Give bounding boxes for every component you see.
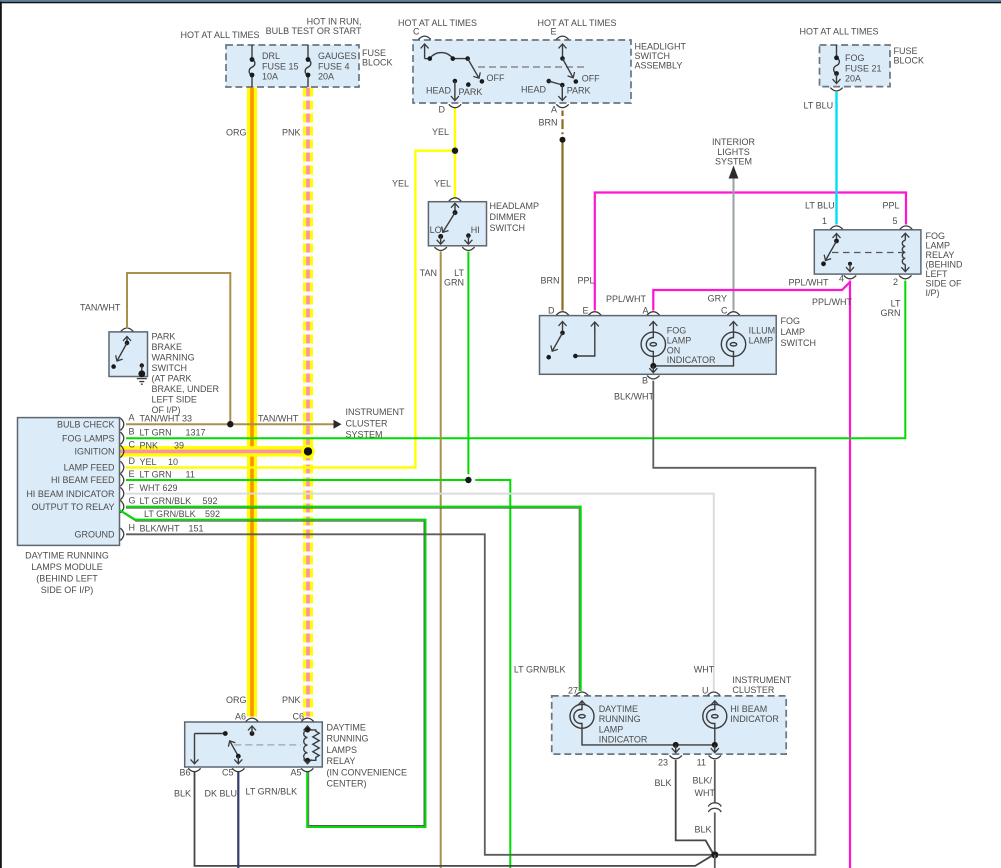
svg-text:LT GRN/BLK: LT GRN/BLK xyxy=(246,787,298,797)
svg-text:FUSE: FUSE xyxy=(362,48,386,58)
svg-text:PPL/WHT: PPL/WHT xyxy=(606,294,647,304)
svg-text:ON: ON xyxy=(667,345,681,355)
svg-text:E: E xyxy=(582,306,588,316)
wire BLK (relay B6 to ground junction along page bottom) xyxy=(195,772,712,866)
wire PPL/WHT (relay pin 4 down + branch to fog switch A) xyxy=(849,281,851,868)
park brake warning switch box xyxy=(109,332,148,377)
wire BRN (headlight switch A to fog switch D) xyxy=(561,111,563,311)
svg-text:LIGHTS: LIGHTS xyxy=(717,147,750,157)
svg-text:ORG: ORG xyxy=(226,695,247,705)
svg-text:2: 2 xyxy=(893,277,898,287)
illum lamp bulb xyxy=(721,322,775,357)
pin 23 xyxy=(670,755,682,758)
svg-text:I/P): I/P) xyxy=(926,288,940,298)
svg-text:H: H xyxy=(129,523,136,533)
svg-text:LEFT SIDE: LEFT SIDE xyxy=(152,395,197,405)
svg-text:SWITCH: SWITCH xyxy=(635,51,671,61)
svg-text:GRY: GRY xyxy=(708,294,727,304)
svg-text:HI BEAM INDICATOR: HI BEAM INDICATOR xyxy=(26,489,115,499)
svg-text:HOT AT ALL TIMES: HOT AT ALL TIMES xyxy=(180,30,259,40)
svg-text:BRN: BRN xyxy=(538,118,557,128)
svg-text:LAMP: LAMP xyxy=(667,335,692,345)
svg-text:LT GRN/BLK: LT GRN/BLK xyxy=(514,665,566,675)
svg-text:10A: 10A xyxy=(262,72,278,82)
svg-text:OUTPUT TO RELAY: OUTPUT TO RELAY xyxy=(32,502,115,512)
inline connector on BLK/WHT xyxy=(708,803,721,812)
svg-text:DRL: DRL xyxy=(262,51,280,61)
svg-text:SWITCH: SWITCH xyxy=(490,223,526,233)
svg-text:1: 1 xyxy=(822,216,827,226)
dashed link inside DRL relay xyxy=(234,744,301,746)
wire DK BLU (relay C5 to page bottom) xyxy=(237,772,239,868)
svg-text:TAN/WHT: TAN/WHT xyxy=(80,303,121,313)
node PNK junction xyxy=(301,445,315,459)
hi beam indicator bulb xyxy=(703,701,780,729)
node YEL junction xyxy=(452,148,458,154)
svg-text:ORG: ORG xyxy=(226,128,247,138)
svg-text:39: 39 xyxy=(174,441,184,451)
svg-text:INSTRUMENT: INSTRUMENT xyxy=(732,675,791,685)
wire LT GRN (module E HI BEAM FEED to page bottom) xyxy=(126,480,510,868)
svg-text:BLK: BLK xyxy=(654,778,671,788)
svg-text:HI: HI xyxy=(471,225,480,235)
svg-text:C: C xyxy=(721,306,728,316)
park brake switch ground contact xyxy=(140,363,144,371)
module pin B xyxy=(120,432,123,444)
pin B6 xyxy=(188,768,200,771)
daytime running lamp indicator bulb xyxy=(570,701,648,745)
module pin A xyxy=(120,418,123,430)
svg-text:BRAKE: BRAKE xyxy=(152,342,183,352)
relay switch xyxy=(821,234,839,267)
svg-text:BLOCK: BLOCK xyxy=(362,58,393,68)
switch C (headlight) xyxy=(425,44,505,101)
svg-text:LAMPS MODULE: LAMPS MODULE xyxy=(31,562,103,572)
pin B xyxy=(647,376,659,379)
svg-text:CENTER): CENTER) xyxy=(327,779,367,789)
svg-text:E: E xyxy=(550,27,556,37)
svg-text:HI BEAM: HI BEAM xyxy=(730,704,767,714)
wire LT BLU (fog fuse to relay pin 1) xyxy=(835,92,837,225)
svg-text:(IN CONVENIENCE: (IN CONVENIENCE xyxy=(327,767,408,777)
wire BLK (cluster 23 to ground junction) xyxy=(676,760,713,853)
svg-text:SIDE OF: SIDE OF xyxy=(926,278,963,288)
svg-text:FUSE 15: FUSE 15 xyxy=(262,62,299,72)
relay A6 contact xyxy=(250,726,255,736)
wire below junction to page bottom xyxy=(714,855,716,868)
svg-text:LAMP: LAMP xyxy=(749,335,774,345)
svg-text:B: B xyxy=(642,376,648,386)
svg-text:RUNNING: RUNNING xyxy=(599,714,641,724)
svg-text:D: D xyxy=(548,306,555,316)
svg-text:YEL: YEL xyxy=(432,127,449,137)
svg-text:LT: LT xyxy=(891,299,901,309)
fog switch contact E xyxy=(573,322,595,358)
svg-text:A5: A5 xyxy=(290,768,301,778)
svg-text:4: 4 xyxy=(839,274,844,284)
svg-text:151: 151 xyxy=(189,524,204,534)
svg-text:LAMP: LAMP xyxy=(781,327,806,337)
wire WHT (module F HI BEAM INDICATOR to cluster pin U) xyxy=(126,494,714,691)
pin 4 contact xyxy=(848,262,852,272)
svg-text:DAYTIME: DAYTIME xyxy=(327,723,366,733)
svg-text:INSTRUMENT: INSTRUMENT xyxy=(346,407,405,417)
svg-text:HEADLAMP: HEADLAMP xyxy=(490,201,540,211)
svg-text:PPL/WHT: PPL/WHT xyxy=(812,297,853,307)
svg-text:SYSTEM: SYSTEM xyxy=(346,429,383,439)
svg-text:LAMP: LAMP xyxy=(926,240,951,250)
svg-text:23: 23 xyxy=(658,758,668,768)
svg-text:TAN/WHT: TAN/WHT xyxy=(258,414,299,424)
svg-text:629: 629 xyxy=(163,483,178,493)
module pin G xyxy=(120,500,123,512)
svg-text:TAN/WHT: TAN/WHT xyxy=(140,414,181,424)
svg-text:U: U xyxy=(702,686,709,696)
pin C5 xyxy=(232,768,244,771)
fog switch blade D xyxy=(546,322,564,360)
svg-text:B6: B6 xyxy=(179,768,190,778)
svg-text:D: D xyxy=(129,456,136,466)
svg-text:C: C xyxy=(129,440,136,450)
svg-text:GROUND: GROUND xyxy=(75,530,115,540)
wire PNK thick highlighted horizontal (module pin C IGNITION to PNK vertical) xyxy=(120,446,313,457)
svg-text:DAYTIME RUNNING: DAYTIME RUNNING xyxy=(25,551,109,561)
svg-text:LAMP: LAMP xyxy=(599,725,624,735)
svg-text:ASSEMBLY: ASSEMBLY xyxy=(635,61,683,71)
fog switch internal wires to pin B xyxy=(650,357,733,373)
instrument cluster box xyxy=(552,696,787,754)
wire PNK thick highlighted dashed vertical (fuse GAUGES to relay C6) xyxy=(303,88,313,717)
daytime running lamps module box xyxy=(18,418,120,546)
svg-text:LT GRN: LT GRN xyxy=(140,428,172,438)
svg-text:FOG: FOG xyxy=(845,53,865,63)
fog lamp on indicator bulb xyxy=(641,322,716,366)
left black frame line xyxy=(0,2,2,868)
svg-text:D: D xyxy=(439,105,446,115)
svg-text:LT BLU: LT BLU xyxy=(804,101,834,111)
wire LT GRN (relay pin 2 to module FOG LAMPS pin B) xyxy=(126,281,905,439)
svg-text:INDICATOR: INDICATOR xyxy=(730,714,779,724)
svg-text:SWITCH: SWITCH xyxy=(781,338,817,348)
fuse FOG FUSE 21 20A xyxy=(834,45,882,84)
svg-text:SIDE OF I/P): SIDE OF I/P) xyxy=(41,585,94,595)
svg-text:BULB CHECK: BULB CHECK xyxy=(57,419,115,429)
svg-text:CLUSTER: CLUSTER xyxy=(732,685,775,695)
svg-text:592: 592 xyxy=(205,509,220,519)
svg-text:BLK: BLK xyxy=(174,789,191,799)
svg-text:C5: C5 xyxy=(222,768,234,778)
svg-text:OFF: OFF xyxy=(582,74,600,84)
svg-text:11: 11 xyxy=(186,469,195,479)
svg-text:GAUGES: GAUGES xyxy=(318,51,357,61)
svg-text:DIMMER: DIMMER xyxy=(490,212,527,222)
svg-text:B: B xyxy=(129,426,135,436)
svg-text:LEFT: LEFT xyxy=(926,269,949,279)
svg-text:PARK: PARK xyxy=(152,332,176,342)
park brake switch blade xyxy=(111,337,129,369)
wire GRY (fog switch C to interior lights system) xyxy=(733,179,735,311)
svg-text:RELAY: RELAY xyxy=(926,250,955,260)
svg-text:HEAD: HEAD xyxy=(426,86,452,96)
svg-text:FOG: FOG xyxy=(667,326,687,336)
svg-text:IGNITION: IGNITION xyxy=(75,447,115,457)
svg-text:A: A xyxy=(129,413,135,423)
fog lamp switch box xyxy=(540,316,777,375)
svg-text:G: G xyxy=(129,496,136,506)
wire LT GRN/BLK (module G to cluster pin 27) xyxy=(126,508,579,691)
module pin E xyxy=(120,474,123,486)
pin A5 xyxy=(301,768,313,771)
relay coil xyxy=(902,233,905,271)
svg-text:33: 33 xyxy=(182,414,192,424)
svg-text:OFF: OFF xyxy=(487,73,505,83)
svg-text:C: C xyxy=(413,27,420,37)
svg-text:BLK/WHT: BLK/WHT xyxy=(140,524,181,534)
svg-text:BLK/: BLK/ xyxy=(693,776,713,786)
relay switch xyxy=(195,731,241,764)
svg-text:(BEHIND: (BEHIND xyxy=(926,259,964,269)
svg-text:ILLUM: ILLUM xyxy=(749,326,776,336)
svg-text:LT GRN/BLK: LT GRN/BLK xyxy=(144,509,196,519)
svg-text:WARNING: WARNING xyxy=(152,353,195,363)
svg-text:RELAY: RELAY xyxy=(327,756,356,766)
svg-text:LT GRN: LT GRN xyxy=(140,469,172,479)
svg-text:HEADLIGHT: HEADLIGHT xyxy=(635,42,687,52)
wire TAN/WHT (park brake switch to module pin A) xyxy=(127,273,230,424)
svg-text:WHT: WHT xyxy=(695,788,716,798)
svg-text:HOT AT ALL TIMES: HOT AT ALL TIMES xyxy=(537,18,616,28)
svg-text:LT GRN/BLK: LT GRN/BLK xyxy=(140,496,192,506)
wire BLK/WHT (cluster 11 to ground junction) xyxy=(714,760,716,851)
svg-text:INTERIOR: INTERIOR xyxy=(712,137,756,147)
svg-text:PPL: PPL xyxy=(578,276,595,286)
svg-text:BLK/WHT: BLK/WHT xyxy=(614,392,655,402)
svg-text:HOT AT ALL TIMES: HOT AT ALL TIMES xyxy=(799,27,878,37)
module pin H xyxy=(120,528,123,540)
svg-text:LT BLU: LT BLU xyxy=(805,201,835,211)
wire BLK/WHT (fog switch B to ground junction) xyxy=(653,381,815,855)
svg-text:PPL/WHT: PPL/WHT xyxy=(788,278,829,288)
svg-text:FUSE: FUSE xyxy=(894,46,918,56)
svg-text:HOT IN RUN,: HOT IN RUN, xyxy=(307,17,362,27)
svg-text:10: 10 xyxy=(168,457,178,467)
svg-text:E: E xyxy=(129,469,135,479)
wire LT GRN/BLK (module G to DRL relay A5) xyxy=(121,512,424,826)
ground xyxy=(137,370,147,384)
svg-text:INDICATOR: INDICATOR xyxy=(667,355,716,365)
svg-text:PNK: PNK xyxy=(282,695,301,705)
svg-text:DK BLU: DK BLU xyxy=(205,789,238,799)
svg-text:TAN: TAN xyxy=(420,268,437,278)
svg-text:YEL: YEL xyxy=(392,179,409,189)
svg-text:WHT: WHT xyxy=(140,483,161,493)
svg-text:1317: 1317 xyxy=(186,428,206,438)
svg-text:YEL: YEL xyxy=(140,457,157,467)
svg-text:FUSE 21: FUSE 21 xyxy=(845,64,882,74)
svg-text:INDICATOR: INDICATOR xyxy=(599,735,648,745)
svg-text:BLOCK: BLOCK xyxy=(894,56,925,66)
svg-text:CLUSTER: CLUSTER xyxy=(346,418,389,428)
wire YEL (headlight switch D to dimmer, branch to module LAMP FEED) xyxy=(454,109,456,198)
svg-text:11: 11 xyxy=(697,758,706,768)
svg-text:BRAKE, UNDER: BRAKE, UNDER xyxy=(152,384,220,394)
svg-text:SWITCH: SWITCH xyxy=(152,363,188,373)
headlamp dimmer switch box xyxy=(428,202,486,246)
wire TAN (dimmer LO down to page bottom) xyxy=(440,252,442,868)
svg-text:PARK: PARK xyxy=(567,86,591,96)
svg-text:592: 592 xyxy=(203,496,218,506)
svg-text:SYSTEM: SYSTEM xyxy=(715,157,752,167)
svg-text:LT: LT xyxy=(454,268,464,278)
svg-text:20A: 20A xyxy=(318,72,334,82)
svg-text:LO: LO xyxy=(430,225,442,235)
fuse block (left) xyxy=(226,45,359,87)
svg-text:BULB TEST OR START: BULB TEST OR START xyxy=(266,26,362,36)
fuse DRL FUSE 15 10A xyxy=(249,45,298,87)
dimmer HI contact xyxy=(466,225,480,244)
module pin F xyxy=(120,487,123,499)
svg-text:5: 5 xyxy=(892,216,897,226)
svg-text:F: F xyxy=(129,483,135,493)
svg-text:PNK: PNK xyxy=(140,441,159,451)
svg-text:YEL: YEL xyxy=(434,179,451,189)
svg-text:(BEHIND LEFT: (BEHIND LEFT xyxy=(36,574,98,584)
daytime running lamps relay box xyxy=(185,722,323,767)
top black frame line xyxy=(0,2,1001,4)
dashed link inside relay xyxy=(832,252,904,254)
svg-text:WHT: WHT xyxy=(694,665,715,675)
module pin C xyxy=(120,445,123,457)
fuse GAUGES FUSE 4 20A xyxy=(305,45,356,87)
svg-text:GRN: GRN xyxy=(444,278,464,288)
svg-text:A: A xyxy=(551,105,557,115)
instrument cluster system arrow xyxy=(334,420,342,429)
svg-text:(AT PARK: (AT PARK xyxy=(152,374,192,384)
headlight switch assembly box xyxy=(413,40,631,103)
wire BLK/WHT (module H GROUND to ground junction) xyxy=(126,534,712,855)
cluster internal ground wires xyxy=(582,728,718,752)
dimmer switch blade xyxy=(443,203,458,232)
svg-text:GRN: GRN xyxy=(881,308,901,318)
svg-text:HI BEAM FEED: HI BEAM FEED xyxy=(51,475,115,485)
wire LT GRN (dimmer HI to module HI BEAM FEED row) xyxy=(467,252,469,475)
svg-text:FOG LAMPS: FOG LAMPS xyxy=(62,433,115,443)
pin 11 xyxy=(709,755,721,758)
svg-text:DAYTIME: DAYTIME xyxy=(599,704,638,714)
interior lights system arrow xyxy=(729,166,739,179)
fuse block (right) xyxy=(820,45,891,87)
svg-text:PPL: PPL xyxy=(882,201,899,211)
svg-text:HOT AT ALL TIMES: HOT AT ALL TIMES xyxy=(398,18,477,28)
svg-text:FOG: FOG xyxy=(781,316,801,326)
svg-text:LAMP FEED: LAMP FEED xyxy=(64,463,115,473)
wire ORG thick highlighted vertical (fuse DRL to relay A6) xyxy=(247,88,257,717)
DRL relay coil xyxy=(304,726,320,764)
svg-text:FUSE 4: FUSE 4 xyxy=(318,62,350,72)
svg-text:BRN: BRN xyxy=(540,276,559,286)
dashed divider inside headlight switch xyxy=(478,66,585,68)
wire TAN/WHT (module A BULB CHECK to instrument cluster system) xyxy=(126,423,334,425)
svg-text:PARK: PARK xyxy=(459,87,483,97)
dimmer LO contact xyxy=(430,225,444,244)
svg-text:PNK: PNK xyxy=(282,128,301,138)
svg-text:FOG: FOG xyxy=(926,231,946,241)
module pin D xyxy=(120,461,123,473)
svg-text:HEAD: HEAD xyxy=(521,85,547,95)
svg-text:A6: A6 xyxy=(235,712,246,722)
svg-text:RUNNING: RUNNING xyxy=(327,734,369,744)
wire PPL (fog switch E to relay pin 5) xyxy=(595,193,906,311)
ground junction node xyxy=(711,851,718,858)
svg-text:BLK: BLK xyxy=(695,825,712,835)
top blue strip xyxy=(0,0,1001,2)
svg-text:20A: 20A xyxy=(845,74,861,84)
switch E (park) xyxy=(521,44,600,101)
fog lamp relay box xyxy=(814,230,921,274)
node BRN splice xyxy=(560,137,566,143)
svg-text:LAMPS: LAMPS xyxy=(327,745,358,755)
